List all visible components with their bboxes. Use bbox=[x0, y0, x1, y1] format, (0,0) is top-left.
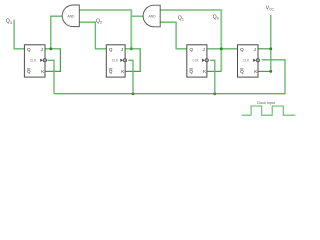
FF1 clock edge triangle bbox=[202, 59, 205, 62]
FF2 pin labels bbox=[109, 47, 125, 74]
FF2 clock bubble bbox=[123, 59, 126, 62]
junction on FF2 J input bbox=[130, 47, 133, 50]
svg-text:Q: Q bbox=[240, 69, 244, 74]
node Vcc label bbox=[266, 6, 275, 12]
svg-text:J: J bbox=[41, 47, 43, 52]
FF3 clock bubble bbox=[43, 59, 46, 62]
wire: Q2 net from FF2 Q up to AND1 lower input bbox=[79, 22, 106, 49]
node Q2 label bbox=[96, 18, 102, 24]
svg-text:CC: CC bbox=[269, 8, 274, 12]
svg-text:AND: AND bbox=[67, 14, 75, 18]
svg-text:CLK: CLK bbox=[30, 59, 37, 63]
svg-text:J: J bbox=[203, 47, 205, 52]
svg-text:Q: Q bbox=[240, 47, 244, 52]
svg-text:CLK: CLK bbox=[243, 59, 250, 63]
wire: Vcc feed to FF0 J and K bbox=[270, 15, 272, 72]
svg-text:CLK: CLK bbox=[112, 59, 119, 63]
FF1 clock bubble bbox=[205, 59, 208, 62]
flip-flop FF1 (Q1) box bbox=[187, 45, 207, 77]
node Q1 label bbox=[178, 15, 184, 21]
flip-flop FF3 (Q3, leftmost) box bbox=[24, 45, 45, 77]
AND gate A1 bbox=[62, 5, 79, 27]
node Q3 label bbox=[6, 19, 12, 25]
wire: FF2 CLK down to bus bbox=[128, 60, 133, 93]
svg-text:Clock Input: Clock Input bbox=[257, 101, 275, 105]
FF2 clock edge triangle bbox=[120, 59, 123, 62]
wire: FF3 CLK to clock bus bbox=[47, 60, 54, 93]
svg-text:Q: Q bbox=[27, 47, 31, 52]
wire: FF1 K stub bbox=[207, 70, 221, 72]
wire: Q0 horizontal FF1 J to FF0 Q bbox=[207, 48, 238, 50]
wire: FF3 J stub, J-to-K drop, K stub bbox=[45, 49, 60, 72]
wire: Q0 net FF0 Q to FF1 J and up to AND2 top input bbox=[160, 10, 221, 71]
FF0 pin labels bbox=[240, 47, 258, 74]
svg-text:CLK: CLK bbox=[192, 59, 199, 63]
clock input waveform bbox=[242, 106, 296, 115]
wire: FF1 CLK down to bus bbox=[210, 60, 215, 93]
wire: AND1 output to FF3 J/K feed bbox=[51, 16, 63, 49]
flip-flop FF2 (Q2) box bbox=[106, 45, 125, 77]
wire: AND1 top input from AND2 output node bbox=[79, 10, 131, 49]
junction clock bus / FF1 clk bbox=[213, 92, 216, 95]
junction Vcc / FF0 J bbox=[269, 47, 272, 50]
flip-flop FF0 (Q0, rightmost) box bbox=[238, 45, 259, 77]
svg-text:3: 3 bbox=[10, 21, 12, 25]
FF0 clock bubble bbox=[256, 59, 259, 62]
svg-text:J: J bbox=[254, 47, 256, 52]
wire: Q1 net from FF1 Q up to AND2 lower input bbox=[160, 22, 187, 49]
svg-text:Q: Q bbox=[27, 69, 31, 74]
FF0 clock edge triangle bbox=[253, 59, 256, 62]
svg-text:Q: Q bbox=[109, 47, 113, 52]
wire: FF0 J stub bbox=[258, 48, 271, 50]
wire: clock bus along bottom bbox=[54, 60, 285, 94]
wire: Q3 output net (FF3 Q up to label Q3) bbox=[14, 20, 24, 49]
svg-text:J: J bbox=[121, 47, 123, 52]
FF1 pin labels bbox=[189, 47, 207, 74]
wire: FF0 K stub bbox=[258, 70, 271, 72]
junction on FF1 J input bbox=[220, 47, 223, 50]
wire: AND2 output joining node bbox=[131, 15, 143, 17]
node Q0 label bbox=[213, 14, 219, 20]
junction on FF3 J input bbox=[49, 47, 52, 50]
svg-text:Q: Q bbox=[109, 69, 113, 74]
svg-text:2: 2 bbox=[100, 21, 102, 25]
FF3 pin labels bbox=[27, 47, 45, 74]
junction Vcc / FF0 K bbox=[269, 70, 272, 73]
svg-text:1: 1 bbox=[182, 18, 184, 22]
FF3 clock edge triangle bbox=[40, 59, 43, 62]
svg-text:0: 0 bbox=[217, 17, 219, 21]
svg-text:Q: Q bbox=[189, 47, 193, 52]
wire: FF2 J stub, J-to-K drop, K stub bbox=[125, 49, 140, 72]
junction clock bus / FF2 clk bbox=[132, 92, 135, 95]
svg-text:Q: Q bbox=[189, 69, 193, 74]
AND gate A2 bbox=[143, 5, 160, 27]
svg-text:AND: AND bbox=[148, 14, 156, 18]
